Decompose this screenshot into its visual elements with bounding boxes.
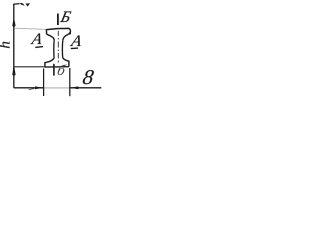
svg-text:h: h (0, 41, 13, 49)
